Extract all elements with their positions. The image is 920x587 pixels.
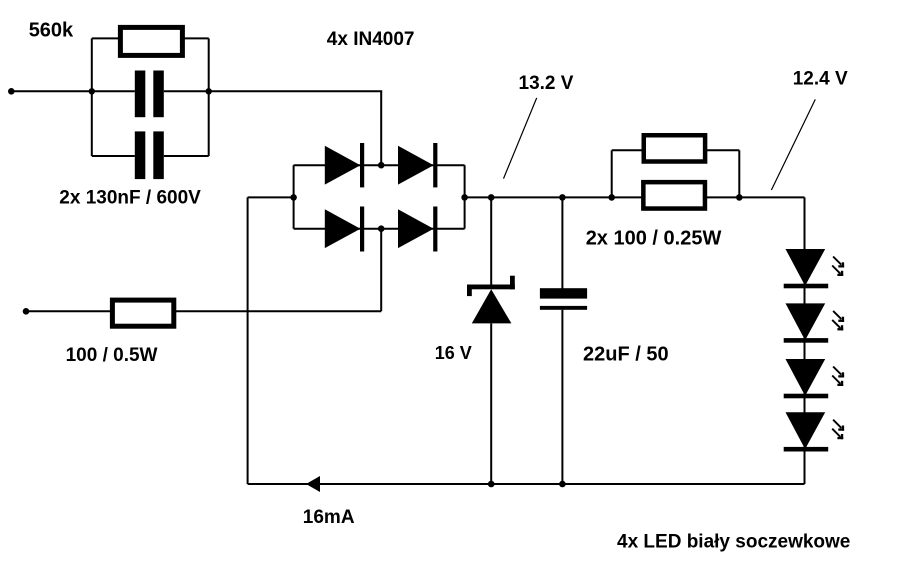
- current direction arrow 16mA: [306, 476, 320, 492]
- wire bracket right horizontal: [706, 149, 740, 151]
- capacitor C1 130nF plates: [135, 71, 164, 118]
- wire return rail left drop: [247, 197, 249, 484]
- resistor R3 100/0.25W top: [644, 135, 705, 161]
- node bridge left junction dot: [290, 194, 297, 201]
- wire bridge left to return rail: [248, 196, 294, 198]
- resistor R1 560k: [120, 27, 182, 55]
- wire bottom left to capacitor C2: [92, 155, 135, 157]
- wire cap branch lower: [561, 310, 563, 484]
- wire input top to capacitor C1 left plate: [11, 90, 135, 92]
- LED D8: [784, 412, 829, 451]
- wire input bottom to resistor R2: [26, 310, 111, 312]
- wire zener branch upper: [490, 197, 492, 286]
- wire stub resistor R1 right: [184, 37, 209, 39]
- svg-text:2x 100 / 0.25W: 2x 100 / 0.25W: [586, 228, 722, 250]
- svg-text:22uF / 50: 22uF / 50: [583, 344, 669, 366]
- diode D2 IN4007: [398, 143, 437, 187]
- node cap bottom dot: [559, 481, 566, 488]
- resistor R4 100/0.25W bottom: [643, 182, 705, 208]
- svg-text:16 V: 16 V: [435, 343, 472, 363]
- node zener bottom dot: [488, 481, 495, 488]
- node resistor-pair right dot: [736, 194, 743, 201]
- LED D6: [784, 303, 829, 342]
- resistor R2 100/0.5W: [112, 300, 173, 326]
- node zener tap dot: [488, 194, 495, 201]
- node cap tap dot: [559, 194, 566, 201]
- wire bracket left of resistor pair: [611, 150, 613, 197]
- wire bridge bottom drop to R2 line: [380, 229, 382, 312]
- wire left rail of RC network: [91, 38, 93, 156]
- node bridge right junction dot: [461, 194, 468, 201]
- node B junction dot: [206, 88, 212, 94]
- svg-text:12.4 V: 12.4 V: [793, 69, 848, 90]
- wire DC output main: [465, 196, 642, 198]
- zener diode Z1 16V: [467, 276, 515, 324]
- LED D7 light arrows: [837, 372, 844, 386]
- node resistor-pair left dot: [608, 194, 615, 201]
- pointer line for 12.4 V: [771, 99, 815, 190]
- wire bracket right of resistor pair: [738, 150, 740, 197]
- LED D7: [784, 359, 829, 398]
- wire bridge right rail: [464, 165, 466, 229]
- wire bridge bottom row: [294, 228, 465, 230]
- wire zener branch lower: [490, 323, 492, 484]
- wire bottom return: [248, 483, 805, 485]
- svg-text:100 / 0.5W: 100 / 0.5W: [66, 345, 158, 366]
- svg-text:16mA: 16mA: [303, 507, 355, 528]
- wire right rail of RC network: [208, 38, 210, 156]
- svg-text:4x IN4007: 4x IN4007: [327, 29, 415, 50]
- LED D5: [784, 249, 829, 288]
- svg-text:4x LED biały soczewkowe: 4x LED biały soczewkowe: [617, 532, 850, 553]
- node A junction dot: [89, 88, 95, 94]
- wire node B to bridge top corner: [209, 90, 383, 92]
- wire C1 right plate to node B: [164, 90, 209, 92]
- wire bridge top row: [294, 164, 465, 166]
- node bridge top junction dot: [378, 162, 385, 169]
- svg-text:13.2 V: 13.2 V: [519, 73, 574, 94]
- svg-text:560k: 560k: [29, 20, 74, 42]
- wire after R4 to LED corner: [707, 196, 805, 198]
- LED D5 light arrows: [837, 262, 844, 276]
- wire resistor R2 to bridge bottom: [176, 310, 381, 312]
- wire cap branch upper: [561, 197, 563, 289]
- capacitor C2 130nF plates: [135, 131, 164, 179]
- wire bridge left rail: [293, 165, 295, 229]
- diode D3 IN4007: [325, 207, 364, 252]
- diode D1 IN4007: [325, 143, 364, 187]
- pointer line for 13.2 V: [504, 98, 537, 179]
- wire bracket left horizontal: [612, 149, 643, 151]
- LED D8 light arrows: [837, 426, 844, 440]
- wire capacitor C2 to bottom right: [164, 155, 209, 157]
- terminal T2 (AC input bottom): [23, 308, 30, 315]
- node bridge bottom junction dot: [378, 225, 385, 232]
- svg-text:2x 130nF / 600V: 2x 130nF / 600V: [59, 188, 201, 209]
- wire bridge top corner drop: [380, 91, 382, 165]
- LED D6 light arrows: [837, 317, 844, 331]
- terminal T1 (AC input top): [8, 88, 15, 95]
- wire stub to resistor R1 left: [92, 37, 119, 39]
- capacitor C3 22uF plates: [540, 288, 587, 310]
- wire LED string vertical: [804, 197, 806, 484]
- diode D4 IN4007: [398, 207, 437, 252]
